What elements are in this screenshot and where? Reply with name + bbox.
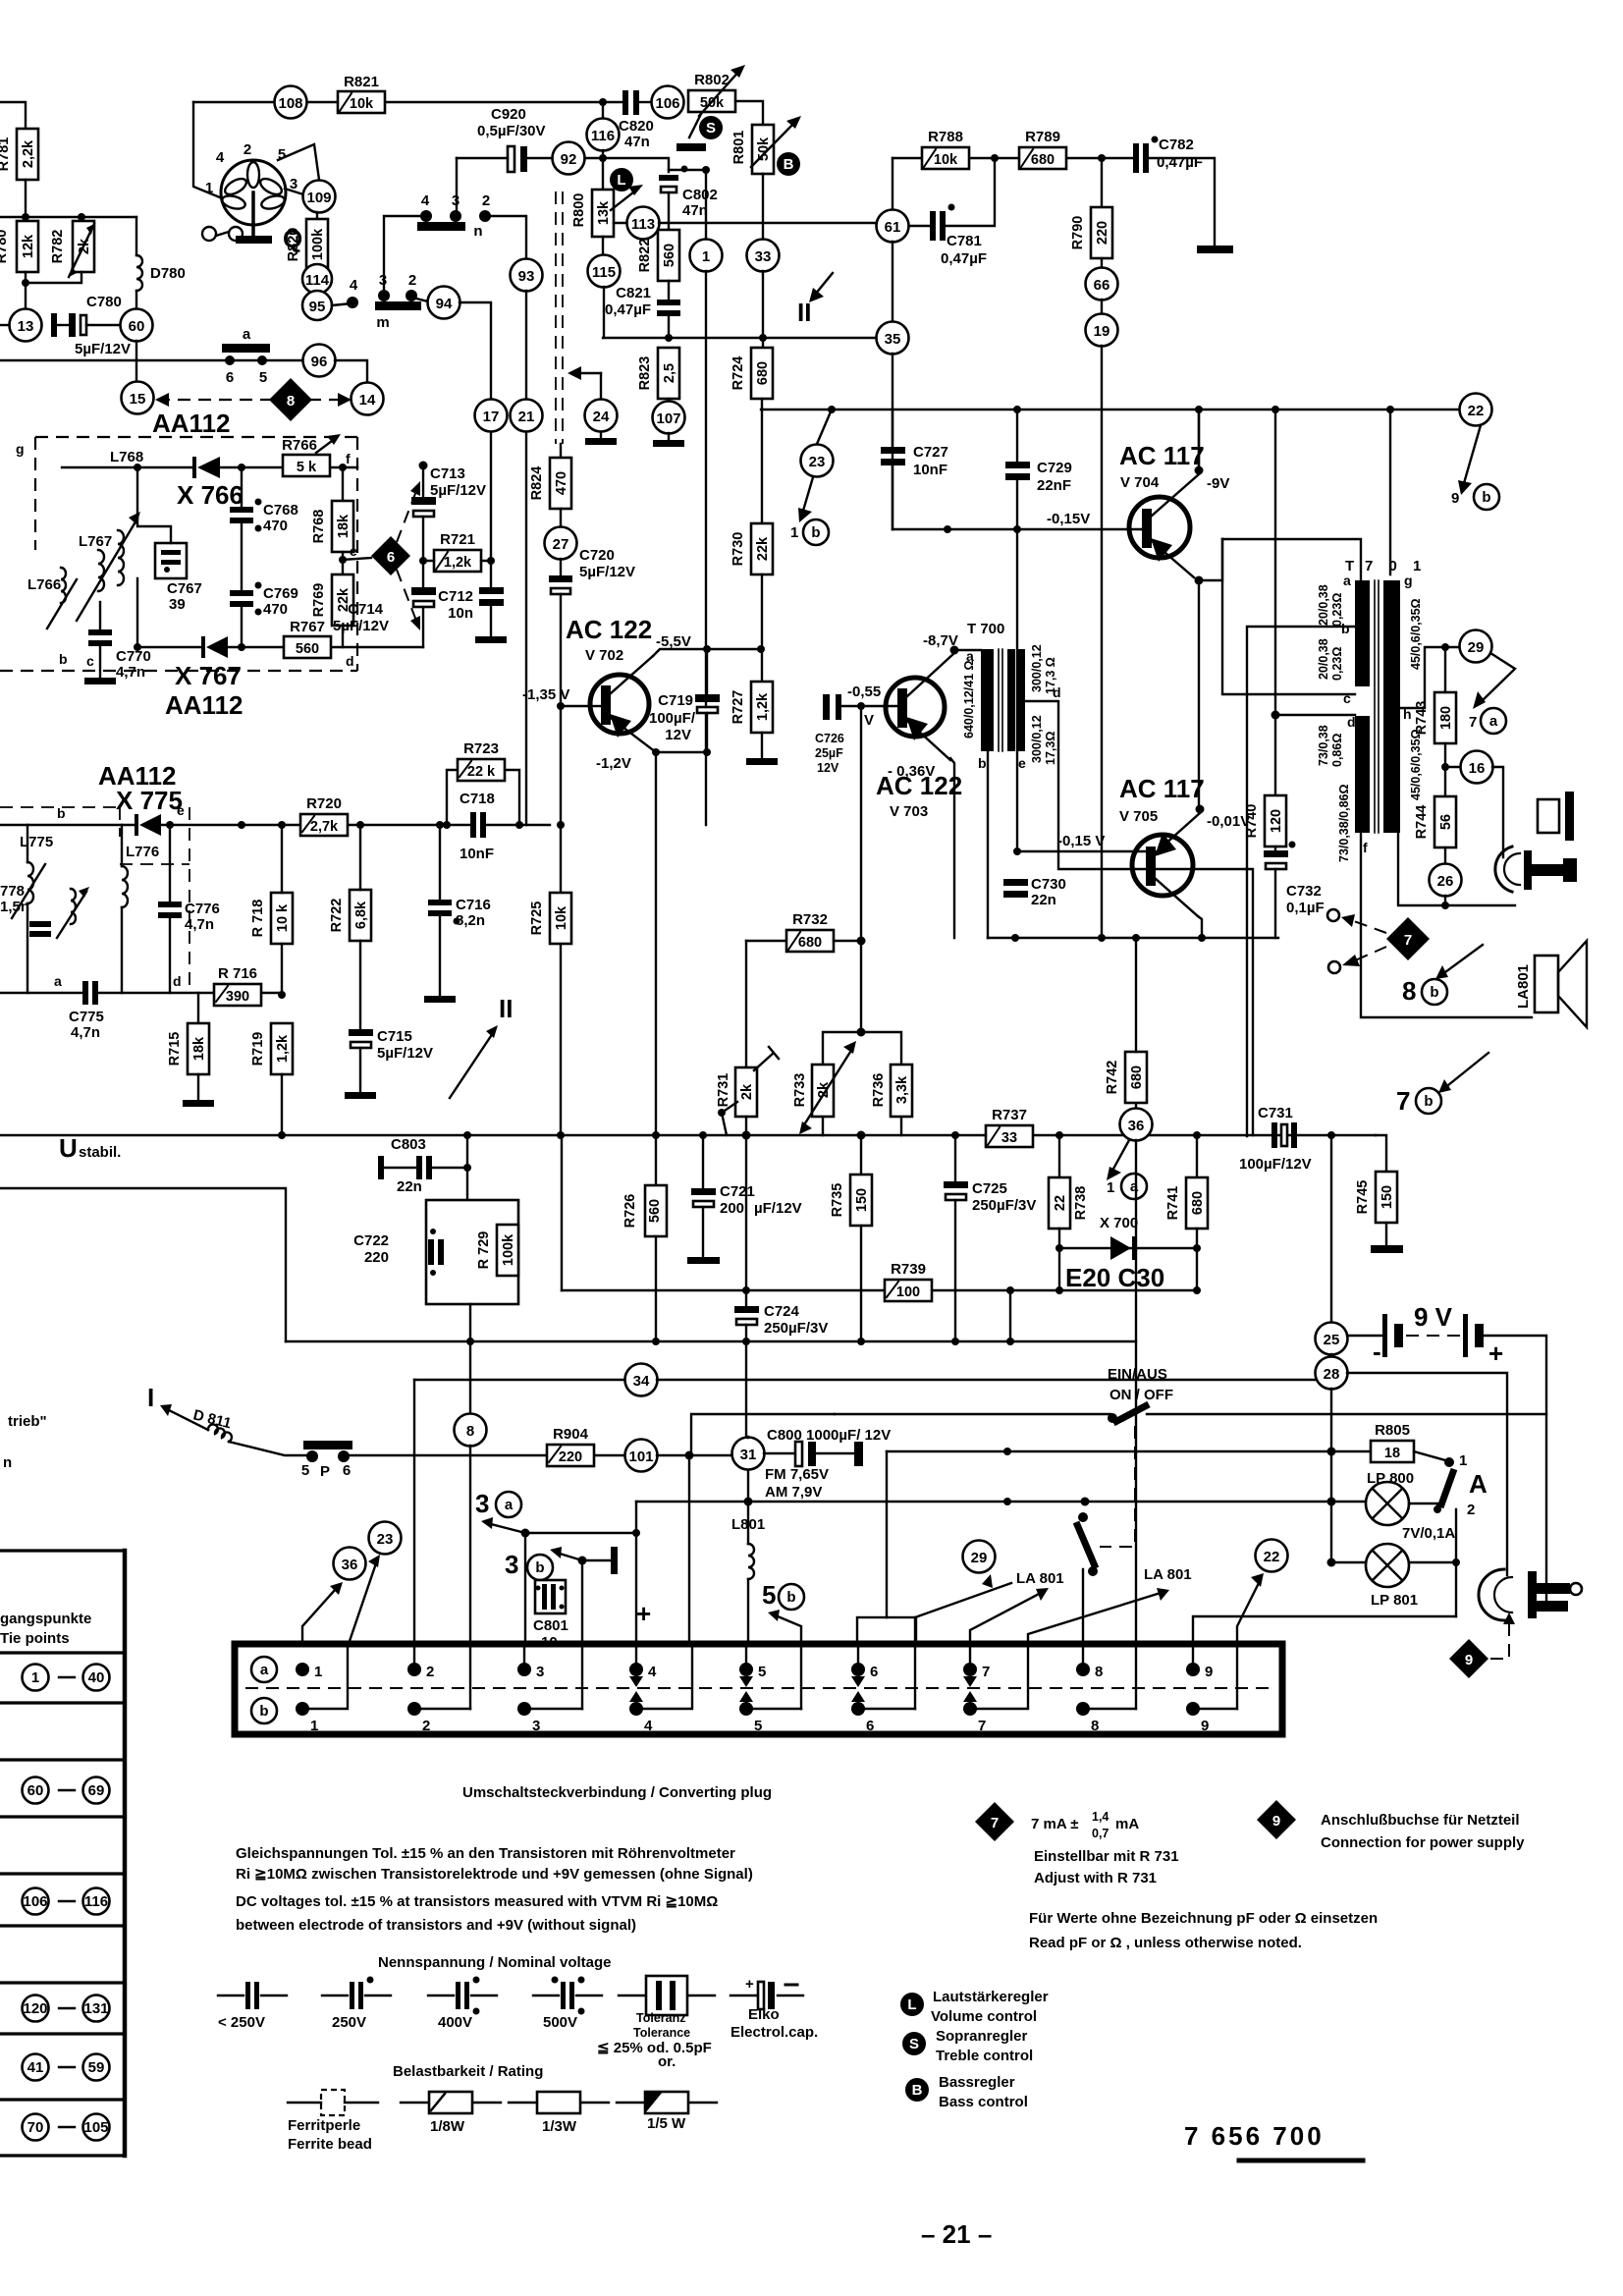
dashed tie line 15-8-14: [155, 393, 352, 407]
capacitor C732: [1264, 842, 1325, 939]
svg-text:Nennspannung / Nominal voltag: Nennspannung / Nominal voltage: [378, 1954, 612, 1971]
svg-text:+: +: [636, 1599, 651, 1628]
capacitor C719: [649, 645, 720, 752]
svg-text:7: 7: [1404, 932, 1412, 949]
resistor R735: [830, 1135, 872, 1341]
node 107: [653, 399, 685, 447]
svg-text:C780: C780: [86, 294, 122, 310]
wire T700 b down: [987, 751, 989, 938]
wire top-left stub: [0, 102, 26, 129]
resistor R726: [622, 1185, 667, 1341]
svg-text:0,23Ω: 0,23Ω: [1330, 647, 1344, 681]
bus y344: [603, 337, 877, 339]
resistor R801 potentiometer: [731, 116, 801, 174]
svg-text:-0,55: -0,55: [847, 683, 881, 700]
strip contact column 6 with diode: [851, 1663, 915, 1734]
capacitor C726: [815, 683, 904, 775]
node 23 lower with arrow: [349, 1522, 402, 1645]
wire x422 down to strip: [413, 1380, 415, 1644]
svg-text:2: 2: [243, 141, 251, 158]
svg-text:C714: C714: [348, 601, 384, 618]
svg-text:29: 29: [971, 1550, 988, 1566]
svg-text:17: 17: [483, 409, 500, 425]
svg-text:C775: C775: [69, 1009, 104, 1025]
resistor R741: [1165, 1135, 1208, 1290]
resistor R782 potentiometer: [50, 221, 94, 277]
capacitor C802: [659, 166, 718, 231]
svg-text:13: 13: [18, 318, 34, 335]
svg-text:60: 60: [129, 318, 145, 335]
svg-text:R736: R736: [871, 1073, 887, 1108]
resistor R768: [311, 467, 371, 574]
wire top line to tube pin1: [193, 102, 220, 197]
1/5W symbol: [617, 2092, 717, 2132]
bass control B: [777, 152, 800, 176]
resistor R739: [885, 1261, 932, 1301]
svg-text:14: 14: [359, 392, 376, 409]
svg-text:6,8k: 6,8k: [353, 901, 369, 929]
main bus y367 with bridge a: [0, 359, 303, 361]
node 26: [1430, 864, 1462, 906]
svg-text:R904: R904: [553, 1426, 589, 1443]
resistor R745: [1355, 1135, 1403, 1253]
wire V704 collector up: [1198, 410, 1200, 470]
svg-text:R780: R780: [0, 230, 10, 264]
diamond 6: [371, 481, 420, 630]
EIN/AUS switch: [835, 1366, 1546, 1547]
svg-text:66: 66: [1094, 277, 1110, 294]
resistor R790: [1070, 158, 1112, 268]
svg-text:2,5: 2,5: [662, 363, 677, 383]
plug box above column 6: [857, 1617, 916, 1644]
capacitor C724: [734, 1135, 828, 1437]
svg-text:50k: 50k: [700, 95, 725, 111]
svg-text:470: 470: [263, 601, 288, 618]
svg-text:17,3Ω: 17,3Ω: [1044, 732, 1057, 765]
svg-text:AM 7,9V: AM 7,9V: [765, 1484, 822, 1501]
svg-text:7 mA ±: 7 mA ±: [1031, 1816, 1079, 1832]
resistor R719: [250, 1023, 293, 1135]
svg-text:56: 56: [1438, 814, 1454, 830]
bus y1210: [0, 1188, 286, 1341]
bus y955: [988, 937, 1278, 939]
svg-text:10k: 10k: [554, 905, 569, 930]
svg-text:gangspunkte: gangspunkte: [0, 1611, 91, 1627]
node 106: [652, 86, 684, 119]
wire f down to speaker: [1361, 833, 1532, 1017]
svg-text:4,7n: 4,7n: [185, 916, 214, 933]
resistor R820: [286, 212, 328, 270]
svg-text:18k: 18k: [191, 1036, 207, 1061]
svg-text:13k: 13k: [596, 200, 612, 225]
wire R801 down to 33: [762, 174, 764, 240]
svg-text:6: 6: [387, 549, 395, 566]
svg-text:61: 61: [885, 219, 901, 236]
svg-text:R725: R725: [529, 902, 545, 936]
wire V703 collector to T700 a: [954, 649, 981, 651]
resistor R800 potentiometer: [571, 185, 643, 237]
capacitor C920: [457, 106, 552, 172]
svg-text:d: d: [346, 653, 354, 669]
strip contact column 9: [1186, 1663, 1237, 1734]
resistor R730: [730, 410, 773, 649]
labels FM AM voltages: [765, 1466, 829, 1501]
1/3W symbol: [509, 2092, 609, 2135]
svg-text:R782: R782: [50, 230, 66, 264]
svg-text:40: 40: [88, 1669, 105, 1686]
svg-text:R724: R724: [730, 356, 746, 391]
lamp feed bus R805: [887, 1450, 1371, 1452]
bus y161 right: [893, 158, 1215, 246]
strip contact column 3: [517, 1663, 582, 1734]
ferrite bead symbol: [288, 2090, 378, 2153]
wire to T701 c: [1222, 539, 1355, 694]
svg-text:C821: C821: [616, 285, 651, 301]
transformer T700: [962, 621, 1061, 771]
resistor R723 loop: [443, 740, 523, 829]
svg-text:R805: R805: [1375, 1422, 1410, 1439]
svg-text:73/0,38/0,86Ω: 73/0,38/0,86Ω: [1337, 784, 1351, 862]
svg-text:L768: L768: [110, 449, 143, 465]
svg-text:0,47µF: 0,47µF: [941, 250, 987, 267]
svg-text:8: 8: [466, 1423, 474, 1440]
inductor D780: [136, 217, 186, 308]
svg-text:b: b: [1424, 1093, 1433, 1110]
svg-text:V 704: V 704: [1120, 474, 1160, 491]
svg-text:R800: R800: [571, 193, 587, 228]
cap symbol 400V: [428, 1977, 497, 2032]
wire 96 to 14: [335, 360, 367, 383]
svg-text:300/0,12: 300/0,12: [1030, 715, 1044, 763]
svg-text:22: 22: [1468, 403, 1485, 419]
svg-text:R744: R744: [1414, 805, 1430, 840]
parallel bracket R733 R736: [823, 1032, 901, 1135]
svg-text:R801: R801: [731, 131, 747, 165]
svg-text:60: 60: [27, 1782, 44, 1799]
voltage -0,15V for V705: [1013, 833, 1149, 855]
svg-text:1,2k: 1,2k: [444, 555, 472, 571]
svg-text:9: 9: [1465, 1652, 1473, 1668]
svg-text:680: 680: [755, 361, 771, 385]
diamond 9 legend: [1257, 1800, 1525, 1851]
svg-text:L: L: [617, 172, 625, 189]
svg-text:0,7: 0,7: [1092, 1827, 1109, 1840]
svg-text:7V/0,1A: 7V/0,1A: [1402, 1525, 1455, 1542]
svg-text:e: e: [1018, 755, 1026, 771]
svg-text:47n: 47n: [682, 202, 708, 219]
svg-text:5: 5: [758, 1664, 766, 1680]
wire 36 down to strip: [1135, 1140, 1137, 1644]
svg-text:0,47µF: 0,47µF: [1157, 154, 1203, 171]
diamond 8: [269, 378, 312, 421]
wire R781 to node line: [25, 180, 27, 221]
svg-text:Sopranregler: Sopranregler: [936, 2028, 1028, 2045]
svg-text:8: 8: [1091, 1718, 1099, 1734]
svg-text:200: 200: [720, 1200, 744, 1217]
resistor R766 potentiometer: [282, 434, 351, 476]
svg-text:10nF: 10nF: [460, 846, 494, 862]
cap symbol 250V: [322, 1977, 391, 2032]
svg-text:Umschaltsteckverbindung / Conv: Umschaltsteckverbindung / Converting plu…: [462, 1784, 772, 1801]
svg-text:9: 9: [1272, 1813, 1280, 1830]
coil L767 variable: [77, 512, 140, 621]
svg-text:R722: R722: [329, 899, 345, 933]
svg-text:≦ 25% od. 0.5pF: ≦ 25% od. 0.5pF: [597, 2040, 712, 2056]
node 34 tie line: [414, 1364, 1322, 1396]
table row 70-105: [23, 2114, 110, 2141]
svg-text:b: b: [59, 651, 68, 667]
transistor V705 AC117: [1119, 774, 1250, 916]
svg-text:27: 27: [553, 536, 569, 553]
svg-text:35: 35: [885, 331, 901, 348]
table row 41-59: [23, 2054, 110, 2081]
svg-text:1: 1: [31, 1669, 39, 1686]
svg-text:120: 120: [23, 2000, 47, 2017]
svg-text:V: V: [864, 712, 874, 729]
strip contact column 1: [296, 1644, 348, 1734]
wire lamp LP801 left: [1331, 1561, 1366, 1563]
svg-text:C712: C712: [438, 588, 473, 605]
svg-text:– 21 –: – 21 –: [921, 2219, 992, 2249]
wire V702 emitter down x666: [655, 752, 657, 1185]
resistor R729: [476, 1225, 518, 1276]
svg-text:106: 106: [655, 95, 679, 112]
node 60: [121, 309, 153, 342]
svg-text:R720: R720: [306, 795, 342, 812]
svg-text:DC voltages tol. ±15 % at tr: DC voltages tol. ±15 % at transistors me…: [236, 1893, 718, 1910]
svg-text:a: a: [260, 1662, 269, 1678]
svg-text:2: 2: [482, 192, 490, 209]
coil variable mid: [57, 887, 89, 938]
svg-text:R788: R788: [928, 129, 963, 145]
node 113: [614, 207, 877, 240]
capacitor C775: [69, 981, 104, 1041]
svg-text:AC 122: AC 122: [566, 615, 652, 644]
svg-text:4: 4: [648, 1664, 657, 1680]
svg-text:f: f: [346, 451, 351, 466]
svg-text:-5,5V: -5,5V: [656, 633, 691, 650]
svg-text:2: 2: [1467, 1502, 1475, 1518]
svg-text:0,1µF: 0,1µF: [1286, 900, 1325, 916]
capacitor C712: [438, 561, 507, 643]
svg-text:12V: 12V: [665, 727, 691, 743]
svg-text:C820: C820: [619, 118, 654, 135]
svg-text:7 0 1: 7 0 1: [1365, 558, 1427, 574]
partial C778 left edge: [0, 883, 51, 937]
resistor R727: [730, 649, 778, 765]
svg-text:4,7n: 4,7n: [116, 664, 145, 681]
legend S treble: [902, 2028, 1033, 2064]
svg-text:8: 8: [287, 393, 295, 410]
strip dashed mid line: [245, 1687, 1271, 1689]
svg-text:R 718: R 718: [250, 900, 266, 938]
wire to T701 d: [1275, 714, 1355, 716]
svg-text:0,23Ω: 0,23Ω: [1330, 593, 1344, 627]
svg-text:1: 1: [1459, 1452, 1467, 1469]
svg-text:29: 29: [1468, 639, 1485, 656]
svg-text:b: b: [786, 1589, 795, 1606]
svg-text:4: 4: [350, 277, 358, 294]
svg-text:250V: 250V: [332, 2014, 366, 2031]
table row 1-40: [23, 1665, 110, 1691]
svg-text:31: 31: [740, 1447, 757, 1463]
svg-text:C729: C729: [1037, 460, 1072, 476]
roman II top: [797, 273, 833, 327]
svg-text:101: 101: [628, 1449, 653, 1465]
capacitor C780: [51, 294, 131, 357]
wire 26 bottom bus to jack: [1398, 833, 1515, 905]
node 22 top: [1451, 394, 1499, 511]
svg-text:µF/12V: µF/12V: [754, 1200, 802, 1217]
svg-text:5: 5: [754, 1718, 762, 1734]
svg-text:Für Werte ohne Bezeichnung: Für Werte ohne Bezeichnung pF oder Ω ein…: [1029, 1910, 1378, 1927]
svg-text:- 0,36V: - 0,36V: [888, 763, 935, 780]
svg-text:stabil.: stabil.: [79, 1144, 121, 1161]
label LA801 second with arrow: [1028, 1566, 1192, 1644]
R904 line: [350, 1454, 625, 1456]
headphone jack lower right: [1479, 1569, 1582, 1620]
svg-text:Treble control: Treble control: [936, 2048, 1033, 2064]
wire y659 discriminator bottom: [137, 646, 423, 648]
svg-text:a: a: [243, 326, 251, 343]
wire n pin2 to node 93: [485, 216, 526, 259]
svg-text:I: I: [147, 1383, 154, 1412]
svg-text:95: 95: [309, 299, 326, 315]
svg-text:e: e: [350, 543, 357, 559]
svg-text:24: 24: [593, 409, 610, 425]
svg-text:Read pF or Ω , unless other: Read pF or Ω , unless otherwise noted.: [1029, 1935, 1302, 1951]
treble control S: [676, 114, 723, 151]
wire 94 right and down x500: [460, 302, 491, 399]
resistor R788: [922, 129, 969, 169]
svg-text:640/0,12/41 Ω: 640/0,12/41 Ω: [962, 660, 976, 738]
svg-text:100µF/12V: 100µF/12V: [1239, 1156, 1312, 1173]
capacitor C770: [59, 602, 151, 684]
svg-text:R823: R823: [637, 356, 653, 391]
transistor V704 AC117: [1047, 441, 1229, 585]
svg-text:P: P: [320, 1463, 330, 1480]
cap symbol 500V: [533, 1977, 602, 2032]
svg-text:100k: 100k: [310, 228, 326, 260]
svg-text:V 705: V 705: [1119, 808, 1158, 825]
legend B bass: [905, 2074, 1028, 2110]
diode X767: [165, 636, 243, 720]
english note: [236, 1893, 718, 1934]
capacitor C800: [767, 1427, 891, 1466]
strip contact column 8: [1076, 1663, 1136, 1734]
svg-text:a: a: [1130, 1178, 1139, 1195]
capacitor C769: [230, 582, 298, 648]
bus y417: [761, 409, 1460, 410]
wire return line to strip col9: [1193, 1616, 1456, 1644]
svg-text:2: 2: [426, 1664, 434, 1680]
node 109: [303, 181, 336, 213]
resistor R767: [284, 619, 354, 669]
node 115: [588, 237, 621, 338]
legend L volume: [900, 1989, 1049, 2025]
lamp LP801: [1366, 1509, 1460, 1616]
svg-text:R735: R735: [830, 1183, 845, 1218]
svg-text:AC 117: AC 117: [1119, 774, 1205, 803]
svg-text:C769: C769: [263, 585, 298, 602]
svg-text:Tie points: Tie points: [0, 1630, 70, 1647]
a-line y1011: [0, 992, 282, 994]
svg-text:250µF/3V: 250µF/3V: [764, 1320, 828, 1337]
wire box bottom down: [469, 1304, 471, 1414]
svg-text:3: 3: [452, 192, 460, 209]
coil L766 variable: [27, 568, 77, 629]
svg-text:28: 28: [1324, 1366, 1340, 1383]
svg-text:470: 470: [554, 471, 569, 495]
svg-text:3: 3: [532, 1718, 540, 1734]
label 7b: [1396, 1053, 1488, 1116]
svg-text:69: 69: [88, 1782, 105, 1799]
svg-text:10nF: 10nF: [913, 462, 947, 478]
svg-text:1: 1: [702, 248, 710, 265]
svg-text:2,7k: 2,7k: [310, 819, 339, 835]
svg-text:e: e: [177, 802, 185, 818]
svg-text:L776: L776: [126, 844, 159, 860]
svg-text:C801: C801: [533, 1617, 568, 1634]
wire tube pin5 to node 109 top: [278, 144, 319, 180]
coil left L775 variable: [12, 825, 45, 993]
diode X775: [135, 814, 161, 836]
resistor R781: [0, 129, 38, 180]
node 14: [352, 383, 384, 415]
svg-text:R769: R769: [311, 583, 327, 618]
table row 120-131: [23, 1995, 110, 2022]
svg-text:a: a: [1489, 713, 1498, 730]
capacitor C821: [605, 281, 680, 338]
svg-text:9 V: 9 V: [1414, 1302, 1453, 1332]
svg-text:C713: C713: [430, 465, 465, 482]
svg-text:C720: C720: [579, 547, 615, 564]
node 8: [455, 1414, 487, 1645]
svg-text:D780: D780: [150, 265, 186, 282]
headphone jack upper: [1495, 847, 1577, 892]
svg-text:R821: R821: [344, 74, 379, 90]
svg-text:C716: C716: [456, 897, 491, 913]
svg-text:5: 5: [259, 369, 267, 386]
node 36 lower with arrow: [302, 1548, 366, 1645]
svg-text:45/0,6/0,35Ω: 45/0,6/0,35Ω: [1409, 729, 1423, 800]
svg-text:115: 115: [592, 264, 616, 281]
svg-text:100k: 100k: [501, 1233, 516, 1266]
resistor R823: [637, 348, 679, 399]
svg-text:C715: C715: [377, 1028, 412, 1045]
svg-text:34: 34: [633, 1373, 650, 1390]
svg-text:180: 180: [1438, 706, 1454, 730]
svg-text:8: 8: [1095, 1664, 1103, 1680]
ground for C782: [1197, 246, 1233, 253]
svg-text:S: S: [706, 120, 716, 137]
svg-text:g: g: [1404, 573, 1413, 588]
terminal dot 4: [332, 277, 358, 308]
svg-text:R 729: R 729: [476, 1231, 492, 1270]
node 114: [302, 264, 332, 294]
node 16: [1445, 751, 1503, 858]
svg-text:23: 23: [377, 1531, 394, 1548]
svg-text:93: 93: [518, 268, 535, 285]
resistor R725: [529, 821, 571, 944]
svg-text:R731: R731: [716, 1073, 731, 1108]
svg-text:5µF/12V: 5µF/12V: [333, 618, 389, 634]
dashed box upper AA112: [0, 437, 357, 671]
svg-text:C719: C719: [658, 692, 693, 709]
svg-text:n: n: [473, 223, 482, 240]
node 101: [625, 1440, 732, 1472]
svg-text:R781: R781: [0, 137, 12, 172]
